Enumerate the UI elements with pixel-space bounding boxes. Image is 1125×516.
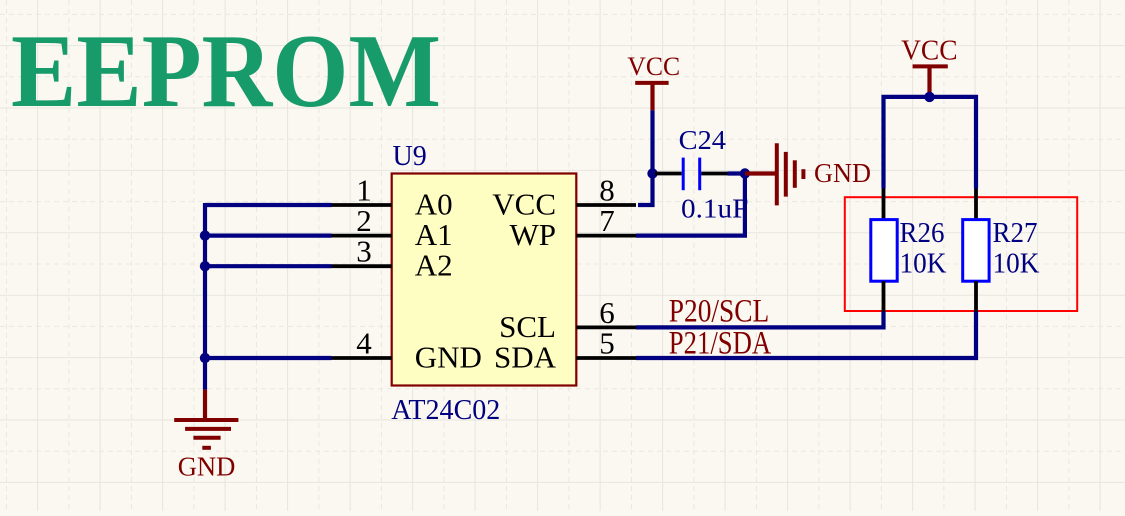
pin 8 (VCC) [492, 173, 636, 222]
wire C24 right to junction [728, 171, 745, 175]
pin 3 (A2) [332, 234, 453, 283]
IC U9 body [392, 174, 577, 386]
svg-text:4: 4 [356, 326, 372, 361]
wire VCC vertical to pin 8 [638, 110, 653, 205]
svg-text:10K: 10K [900, 247, 947, 279]
resistor R26 [871, 189, 897, 312]
svg-text:R26: R26 [900, 217, 945, 249]
svg-text:EEPROM: EEPROM [11, 12, 441, 129]
junction VCC/C24 left [647, 168, 657, 178]
net label P20/SCL [669, 294, 770, 330]
wire net A0 (pin1 to bus) [205, 203, 332, 207]
label 10K (R26) [900, 247, 947, 279]
svg-text:GND: GND [178, 451, 236, 481]
title EEPROM [11, 12, 441, 129]
svg-text:7: 7 [599, 203, 615, 238]
svg-text:GND: GND [415, 340, 482, 375]
junction bus/pin2 [200, 230, 210, 240]
svg-text:U9: U9 [393, 141, 427, 172]
pin 1 (A0) [332, 173, 453, 222]
svg-text:GND: GND [814, 158, 871, 188]
wire left ground bus vertical [203, 203, 207, 390]
svg-text:R27: R27 [993, 217, 1038, 249]
wire net SDA (pin5 to R27) [636, 312, 976, 359]
label 10K (R27) [993, 247, 1040, 279]
junction bus/pin4 [200, 353, 210, 363]
power VCC (decoupling) [627, 52, 680, 110]
wire net A1 (pin2 to bus) [205, 234, 332, 238]
junction VCC/rail [924, 92, 934, 102]
selection rectangle [845, 197, 1077, 311]
svg-text:10K: 10K [993, 247, 1040, 279]
svg-text:VCC: VCC [627, 52, 680, 81]
value AT24C02 [391, 395, 500, 426]
svg-text:SDA: SDA [494, 340, 557, 375]
svg-text:0.1uF: 0.1uF [681, 194, 748, 224]
label R26 [900, 217, 945, 249]
pin 7 (WP) [510, 203, 637, 252]
svg-text:P21/SDA: P21/SDA [669, 326, 772, 362]
wire net A2 (pin3 to bus) [205, 264, 332, 268]
svg-text:WP: WP [510, 217, 557, 252]
ground GND (right, sideways) [745, 143, 871, 205]
net label P21/SDA [669, 326, 772, 362]
svg-text:C24: C24 [679, 125, 727, 155]
svg-text:A2: A2 [415, 248, 453, 283]
pin 2 (A1) [332, 203, 453, 252]
capacitor C24 [655, 158, 728, 191]
power VCC (pull-ups) [901, 35, 957, 97]
ground GND (bottom left) [174, 390, 238, 482]
svg-text:AT24C02: AT24C02 [391, 395, 500, 426]
wire net GND (pin4 to bus) [205, 356, 332, 360]
wire WP to ground junction [636, 174, 745, 236]
label C24 [679, 125, 727, 155]
pin 6 (SCL) [499, 295, 636, 344]
label R27 [993, 217, 1038, 249]
pin 5 (SDA) [494, 326, 636, 375]
svg-text:P20/SCL: P20/SCL [669, 294, 770, 330]
svg-text:VCC: VCC [901, 35, 957, 66]
junction C24/WP/GND [740, 168, 750, 178]
wire net SCL (pin6 to R26) [636, 312, 884, 328]
label 0.1uF [681, 194, 748, 224]
svg-text:3: 3 [356, 234, 372, 269]
junction bus/pin3 [200, 261, 210, 271]
pin 4 (GND) [332, 326, 482, 375]
svg-text:5: 5 [599, 326, 615, 361]
wire VCC rail to R26/R27 tops [884, 97, 977, 189]
designator U9 [393, 141, 427, 172]
resistor R27 [963, 189, 989, 312]
